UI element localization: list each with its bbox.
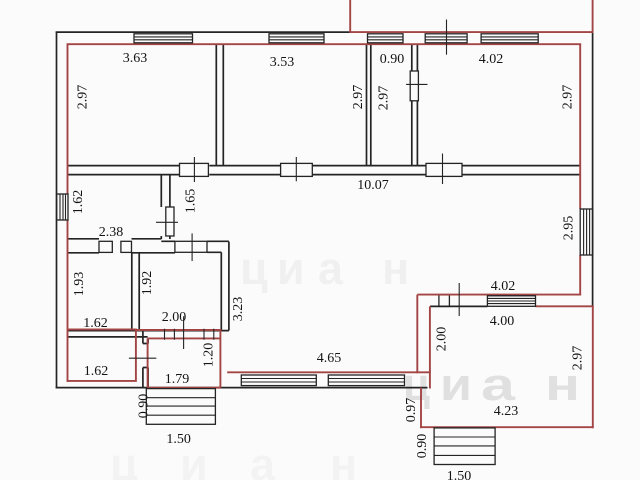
wall corridor 1.65 right [221, 242, 229, 331]
watermark row main [403, 359, 580, 410]
door tick room 3.53 [295, 157, 297, 181]
svg-text:0.90: 0.90 [136, 394, 151, 419]
red extension bottom [420, 426, 594, 428]
window bottom Wb2 [328, 375, 404, 386]
window top W1 [134, 34, 193, 43]
window top W2 [269, 34, 324, 43]
svg-text:4.00: 4.00 [490, 314, 515, 329]
window left wall [57, 194, 68, 220]
svg-text:2.38: 2.38 [99, 225, 124, 240]
svg-text:и: и [440, 359, 472, 410]
window right wall 2.95 [580, 209, 592, 255]
door box corridor 0.90 to room 4.02 [410, 71, 418, 101]
wall outer bottom [56, 387, 428, 389]
svg-text:4.23: 4.23 [494, 404, 519, 419]
steps southeast [434, 428, 495, 465]
wall 10.07 bottom line [68, 174, 581, 176]
svg-text:3.23: 3.23 [231, 297, 246, 322]
svg-text:и: и [277, 243, 305, 294]
svg-text:2.95: 2.95 [562, 216, 577, 241]
window top W5 [481, 34, 538, 43]
red extension left outer [416, 295, 418, 374]
window bottom Wb1 [241, 375, 316, 386]
svg-text:1.65: 1.65 [184, 189, 199, 214]
wall below rooms 1.93 and 1.92 [68, 331, 229, 337]
svg-text:4.02: 4.02 [479, 52, 504, 67]
wall horizontal below corridor 1.65 bottom line [68, 251, 222, 254]
red extension right [592, 306, 594, 429]
svg-text:а: а [250, 439, 276, 480]
svg-text:1.62: 1.62 [83, 316, 108, 331]
watermark row faint bottom [110, 439, 357, 480]
wall corridor 1.65 left [161, 175, 170, 239]
door tick extension entry [458, 283, 460, 316]
window top W4 [425, 34, 467, 43]
wall outer right [592, 32, 594, 306]
steps southwest [146, 389, 215, 425]
door jamb box b wall 2.38 [121, 241, 132, 252]
wall divider room 3.53 and corridor 0.90 [367, 44, 371, 165]
extension jamb box [439, 295, 450, 307]
red extension lower left [420, 388, 422, 429]
wall outer left [56, 32, 58, 389]
svg-text:1.20: 1.20 [202, 343, 217, 368]
svg-text:3.63: 3.63 [123, 51, 148, 66]
red inner top [67, 43, 582, 45]
svg-text:2.97: 2.97 [351, 85, 366, 110]
svg-text:4.65: 4.65 [317, 351, 342, 366]
door tick room 3.63 [193, 157, 195, 182]
red stub above top wall right [592, 0, 594, 32]
svg-text:1.62: 1.62 [71, 190, 86, 215]
window extension We [487, 296, 535, 307]
door tick corridor to room 1.92 [191, 233, 193, 261]
svg-text:ц: ц [110, 439, 138, 480]
red hall outline [136, 330, 221, 388]
wall divider corridor 0.90 and room 4.02 [412, 44, 418, 165]
wall divider rooms 1.93 and 1.92 [132, 253, 139, 331]
window top W3 [368, 34, 404, 43]
svg-text:0.90: 0.90 [415, 434, 430, 459]
door tick room 4.02 [442, 154, 444, 185]
svg-text:3.53: 3.53 [270, 55, 295, 70]
svg-text:4.02: 4.02 [491, 279, 516, 294]
wall 10.07 top line [68, 165, 581, 167]
svg-text:1.50: 1.50 [166, 432, 191, 447]
red outer top right part [349, 31, 593, 33]
svg-text:1.92: 1.92 [140, 271, 155, 296]
svg-text:2.97: 2.97 [76, 85, 91, 110]
svg-text:1.79: 1.79 [165, 372, 190, 387]
svg-text:н: н [382, 243, 409, 294]
door box room 3.63 to corridor [180, 163, 209, 176]
watermark row faint upper [240, 243, 409, 294]
svg-text:а: а [318, 243, 344, 294]
red inner left [67, 44, 69, 382]
door box room 3.53 [281, 163, 313, 176]
extension door jamb black line [430, 305, 487, 307]
door tick corridor 0.90 [406, 83, 427, 85]
svg-text:0.97: 0.97 [404, 398, 419, 423]
svg-text:н: н [330, 439, 357, 480]
door ticks hall top [165, 329, 214, 340]
svg-text:10.07: 10.07 [357, 178, 389, 193]
door tick room 1.62 to hall [129, 357, 156, 359]
red inner right [579, 44, 581, 296]
red stub above top wall left [349, 0, 351, 32]
red extension top inner right [536, 305, 594, 307]
svg-text:2.97: 2.97 [377, 86, 392, 111]
door box room 4.02 [426, 163, 462, 176]
svg-text:ц: ц [240, 243, 268, 294]
red extension top wall [417, 294, 581, 296]
svg-text:2.97: 2.97 [561, 85, 576, 110]
door tick corridor 1.65 left [156, 221, 178, 223]
wall horizontal below corridor 1.65 top line [68, 239, 229, 242]
svg-text:1.62: 1.62 [84, 364, 109, 379]
red room 1.62 outline [67, 329, 136, 381]
svg-text:2.00: 2.00 [435, 327, 450, 352]
wall outer top black part [56, 31, 351, 33]
door tick 2.00 wall room 1.92 [183, 316, 185, 349]
svg-text:0.90: 0.90 [380, 52, 405, 67]
svg-text:а: а [481, 359, 516, 410]
wall between room 1.62 and hall [143, 331, 148, 388]
red line 4.65 window wall [227, 371, 431, 373]
red extension inner left [429, 306, 431, 388]
svg-text:1.93: 1.93 [72, 272, 87, 297]
svg-text:2.00: 2.00 [162, 310, 187, 325]
svg-text:2.97: 2.97 [571, 346, 586, 371]
door box corridor to room 1.92 [175, 241, 207, 252]
wall divider rooms 3.63 and 3.53 [216, 44, 223, 165]
tick on top wall window W4 [446, 20, 448, 55]
door box corridor 1.65 to room 2.38 [166, 207, 174, 236]
svg-text:1.50: 1.50 [447, 469, 472, 480]
door jamb box a wall 2.38 [99, 241, 112, 252]
